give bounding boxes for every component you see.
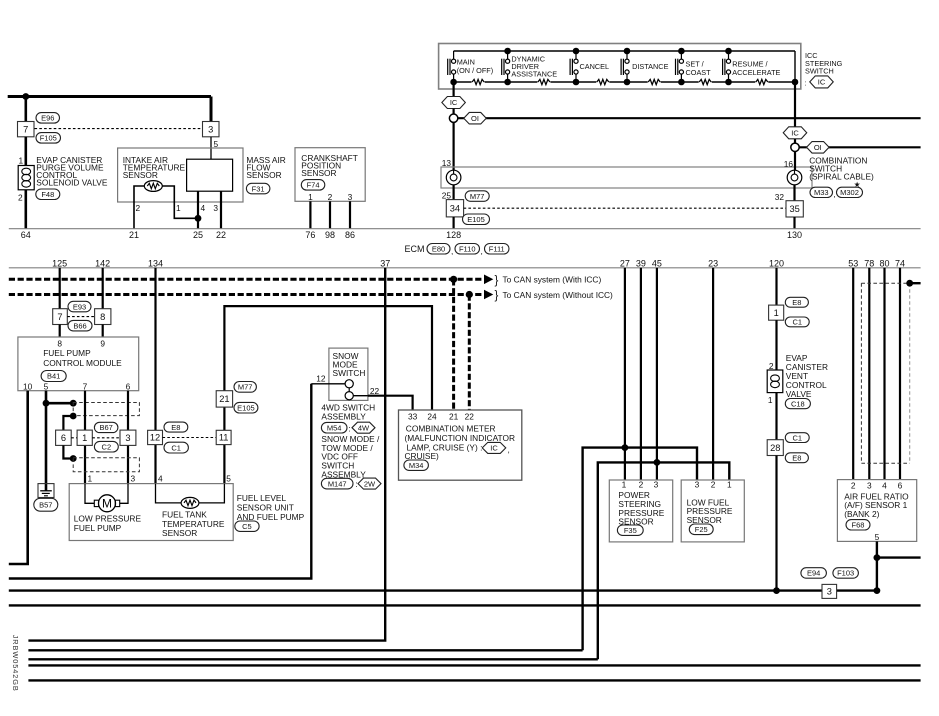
connector oval M77 b <box>234 382 256 393</box>
connector oval E93 <box>68 301 91 312</box>
connector oval F105 <box>36 133 61 144</box>
thermistor intake air temp sensor <box>144 181 162 192</box>
wire bottom rail 3 <box>28 649 582 651</box>
svg-text:5: 5 <box>226 474 231 484</box>
wire ECM 120 down to connector 1 <box>775 268 777 305</box>
svg-text:1: 1 <box>19 156 24 166</box>
connector box 3 (E94/F103) <box>822 584 837 598</box>
svg-text:22: 22 <box>216 230 226 240</box>
svg-text:10: 10 <box>23 382 33 392</box>
node AF branch junction <box>874 554 881 561</box>
connector box 7 (E96/F105) <box>18 122 35 137</box>
wire feed down to connector 3 <box>210 97 213 122</box>
svg-text:F110: F110 <box>459 244 476 253</box>
wire OI long left <box>458 117 921 119</box>
svg-text:22: 22 <box>465 411 475 421</box>
svg-text:53: 53 <box>848 258 858 268</box>
svg-text:2W: 2W <box>364 479 376 488</box>
wire bottom rail 5 <box>28 664 920 666</box>
svg-text:2: 2 <box>136 203 141 213</box>
connector oval B57 <box>34 498 58 511</box>
svg-text:12: 12 <box>150 433 160 443</box>
wire from junction down to connector 7 <box>24 97 27 122</box>
svg-text:34: 34 <box>450 203 460 213</box>
svg-text:E105: E105 <box>237 403 255 412</box>
wire ring right down to spiral 16 <box>794 151 796 170</box>
wire solenoid pin 2 down to ECM pin 64 <box>24 190 27 229</box>
connector oval M302 <box>837 187 863 197</box>
CAN bus arrow 2 <box>484 290 493 300</box>
svg-text:1: 1 <box>176 203 181 213</box>
CAN bus line 2 (without ICC) <box>9 293 485 296</box>
node shield2 corner <box>70 455 77 462</box>
CAN bus arrow 1 <box>484 275 493 285</box>
wire motor to pump pin3 <box>120 484 128 504</box>
svg-text:16: 16 <box>784 159 794 169</box>
connector oval B66 <box>68 320 92 331</box>
svg-text:SENSOR: SENSOR <box>687 515 722 525</box>
svg-text:B57: B57 <box>39 500 52 509</box>
switch contact link <box>348 388 350 392</box>
crankshaft position sensor box <box>295 148 365 202</box>
wire vent valve down to connector 28 <box>775 393 777 440</box>
wire IC hex to ring <box>453 109 455 115</box>
resistor after MAIN <box>472 79 484 84</box>
svg-text:8: 8 <box>100 312 105 322</box>
svg-text:128: 128 <box>446 230 461 240</box>
svg-text:}: } <box>495 290 499 302</box>
svg-text:DISTANCE: DISTANCE <box>632 62 668 71</box>
svg-text:3: 3 <box>125 433 130 443</box>
svg-text:B66: B66 <box>73 321 86 330</box>
svg-text:8: 8 <box>57 339 62 349</box>
svg-text:1: 1 <box>88 474 93 484</box>
dashed link 34 to 35 <box>464 207 786 209</box>
svg-text:E8: E8 <box>792 453 801 462</box>
wire ECM 45 down to PS sensor pin 3 <box>656 268 658 480</box>
connector oval C1 r1 <box>785 317 809 327</box>
wire pin5 junction down to body ground <box>45 403 48 491</box>
wire pump pin1 into box <box>85 484 94 504</box>
svg-text:98: 98 <box>325 230 335 240</box>
svg-text:E80: E80 <box>432 244 445 253</box>
connector box 35 <box>786 201 803 217</box>
svg-text:AND FUEL PUMP: AND FUEL PUMP <box>237 512 305 522</box>
svg-text:C1: C1 <box>792 433 802 442</box>
dashed shield box AF sensor <box>860 283 862 463</box>
ICC steering switch box <box>439 44 801 90</box>
svg-text:1: 1 <box>768 395 773 405</box>
connector hexagon IC left <box>442 97 466 109</box>
connector hexagon IC right <box>783 127 807 139</box>
connector oval F31 <box>246 183 270 194</box>
svg-text:M302: M302 <box>840 188 859 197</box>
connector box 7 lower (E93/B66) <box>53 309 68 325</box>
resistor after RESUME <box>756 79 768 84</box>
node AF rail junction <box>874 587 881 594</box>
wire main feed top-left horizontal <box>8 95 211 98</box>
wire ECM 27 down to PS sensor pin 1 <box>624 268 626 480</box>
wire ring down to spiral 13 <box>453 122 455 170</box>
node junction pin1/pin4 <box>195 215 202 222</box>
spiral cable symbol left <box>446 170 461 185</box>
svg-text:1: 1 <box>308 192 313 202</box>
wire MAIN tap down to IC <box>453 82 455 96</box>
wire connector 7 down to solenoid pin 1 <box>24 137 27 166</box>
svg-text:COMBINATION METER: COMBINATION METER <box>406 424 496 434</box>
wire connector 21 down through 11 to pump pin 5 <box>223 407 225 484</box>
svg-text:M54: M54 <box>327 423 342 432</box>
switch MAIN (ON/OFF) <box>447 59 449 75</box>
svg-text:5: 5 <box>44 382 49 392</box>
wire shield AF to margin <box>910 282 921 284</box>
switch DISTANCE <box>620 59 622 75</box>
svg-text:3: 3 <box>695 480 700 490</box>
wire thermistor left to pin 2 <box>134 186 144 229</box>
svg-text:M: M <box>102 497 112 511</box>
svg-text:6: 6 <box>126 382 131 392</box>
connector hexagon OI right <box>807 142 830 154</box>
motor low pressure fuel pump <box>94 500 98 506</box>
wire bottom bus ICC switch <box>454 81 472 83</box>
connector hexagon OI left <box>464 112 487 124</box>
wire connector8 to module pin 9 <box>102 325 104 338</box>
svg-text:86: 86 <box>345 230 355 240</box>
wire junction to shield corner <box>46 402 73 405</box>
ECM bottom boundary line <box>9 267 921 269</box>
connector hexagon IC label <box>810 76 834 88</box>
svg-text:F25: F25 <box>695 525 708 534</box>
wire ECM 78 down to AF pin 3 <box>868 268 870 480</box>
node top bus CANCEL <box>573 48 580 55</box>
wire thermistor to pump pin5 <box>199 484 225 503</box>
svg-text:VALVE: VALVE <box>786 389 812 399</box>
svg-text:SENSOR: SENSOR <box>301 168 336 178</box>
connector oval F68 <box>846 520 870 530</box>
svg-text:E8: E8 <box>792 298 801 307</box>
svg-text::: : <box>355 479 357 489</box>
spiral cable symbol right <box>787 170 802 185</box>
wire CAN drop to meter pin 22 <box>468 295 471 411</box>
svg-text:M33: M33 <box>814 188 829 197</box>
node bottom bus RESUME <box>725 79 732 86</box>
svg-text:SENSOR: SENSOR <box>162 528 197 538</box>
node bottom bus right end <box>792 79 799 86</box>
svg-text:4: 4 <box>158 474 163 484</box>
svg-text:4: 4 <box>201 203 206 213</box>
wire ECM 74 down to AF pin 6 <box>899 268 901 480</box>
switch SET/COAST <box>675 59 677 75</box>
wire AF branch to margin <box>877 556 921 558</box>
fuel level sensor unit box <box>69 484 233 541</box>
connector box 3 (B67/C2) <box>120 430 136 445</box>
svg-text:7: 7 <box>83 382 88 392</box>
svg-text:E8: E8 <box>171 423 180 432</box>
intake air temperature sensor outer box <box>118 148 243 202</box>
wire connector1 down to vent valve pin 2 <box>775 320 777 370</box>
svg-text:OI: OI <box>814 143 822 152</box>
svg-text:142: 142 <box>95 258 110 268</box>
svg-text:(MALFUNCTION INDICATOR: (MALFUNCTION INDICATOR <box>405 433 515 443</box>
svg-text:,: , <box>481 246 483 256</box>
svg-text:76: 76 <box>305 230 315 240</box>
svg-text:3: 3 <box>827 587 832 597</box>
svg-text:F31: F31 <box>252 184 265 193</box>
wire module pin 6 through connector 3 to pump pin 3 <box>127 391 129 484</box>
connector oval C18 <box>785 399 810 409</box>
wire branch B to LF pin 1 <box>598 462 730 659</box>
wire shield corner to connector 6 <box>63 416 73 430</box>
svg-text:1: 1 <box>82 433 87 443</box>
svg-text:78: 78 <box>864 258 874 268</box>
connector oval E8 r2 <box>785 453 808 463</box>
wire module pin 7 through connector 1 to pump pin 1 <box>84 391 86 484</box>
svg-text:25: 25 <box>193 230 203 240</box>
node shield bottom-left corner <box>70 413 77 420</box>
wire connector 6 down to corner <box>63 445 72 458</box>
svg-text:(ON / OFF): (ON / OFF) <box>457 66 493 75</box>
svg-text:23: 23 <box>708 258 718 268</box>
dashed shield box lower <box>73 458 139 472</box>
dashed link 7-8 <box>67 316 94 318</box>
svg-text:125: 125 <box>52 258 67 268</box>
wire CKP pin 1 to ECM 76 <box>309 201 311 228</box>
svg-text:MAIN: MAIN <box>457 57 475 66</box>
connector oval M34 <box>404 460 429 470</box>
svg-text:134: 134 <box>148 258 163 268</box>
connector box 1 (B67/C2) <box>77 430 92 445</box>
connector oval C1 r2 <box>785 433 809 443</box>
resistor after DISTANCE <box>648 79 660 84</box>
svg-text:C2: C2 <box>102 442 112 451</box>
wire module pin 10 down-left <box>9 391 28 564</box>
wire thermistor right to pin 1 elbow <box>162 186 197 218</box>
svg-text:IC: IC <box>791 129 799 138</box>
connector box 21 (M77/E105) <box>216 391 232 407</box>
air fuel ratio sensor box <box>837 480 916 542</box>
svg-text:2: 2 <box>711 480 716 490</box>
node bottom bus SET <box>678 79 685 86</box>
svg-text:12: 12 <box>316 373 326 383</box>
node junction 27 branch <box>622 444 629 451</box>
mass air flow sensor inner block <box>187 159 233 191</box>
svg-text:CONTROL MODULE: CONTROL MODULE <box>43 358 122 368</box>
connector box 34 (M77/E105) <box>446 200 463 217</box>
wire OI long right <box>799 146 921 148</box>
wire connector 35 down to ECM 130 <box>793 217 795 229</box>
wire connector7 to module pin 8 <box>59 325 61 338</box>
wire connector 3 to MAF box <box>210 137 212 159</box>
svg-text:F35: F35 <box>624 526 637 535</box>
svg-text:B67: B67 <box>99 423 112 432</box>
connector oval F103 <box>833 568 859 579</box>
svg-text:C1: C1 <box>792 318 802 327</box>
wire module pin 5 down to junction <box>45 391 48 404</box>
wire branch A to LF pin 3 <box>583 448 697 651</box>
svg-text:M77: M77 <box>238 383 253 392</box>
svg-text:3: 3 <box>208 124 213 134</box>
switch contact circle bottom <box>345 392 353 400</box>
wire snow pin 12 down to bottom rail <box>9 384 312 579</box>
svg-text:M77: M77 <box>470 192 485 201</box>
connector oval M54 with hexagon 4W <box>321 422 347 433</box>
svg-text:,: , <box>833 189 835 199</box>
combination switch spiral cable box <box>441 167 812 188</box>
wire CKP pin 2 to ECM 98 <box>329 201 331 228</box>
switch contact circle top <box>345 380 353 388</box>
dotted link 12-11 <box>163 437 217 439</box>
svg-text:24: 24 <box>427 411 437 421</box>
solenoid coil EVAP vent valve <box>767 370 783 393</box>
node bottom bus DISTANCE <box>624 79 631 86</box>
svg-text:3: 3 <box>867 481 872 491</box>
combination meter box <box>399 410 522 480</box>
snow mode switch box <box>329 348 368 400</box>
svg-text:IC: IC <box>490 444 498 453</box>
svg-text:,: , <box>451 246 453 256</box>
svg-text:}: } <box>495 275 499 287</box>
svg-text:SWITCH: SWITCH <box>333 368 366 378</box>
svg-text:45: 45 <box>652 258 662 268</box>
svg-text:3: 3 <box>348 192 353 202</box>
node top bus DISTANCE <box>624 48 631 55</box>
svg-text:3: 3 <box>654 480 659 490</box>
dotted link 6-1 <box>71 437 77 439</box>
svg-text:E94: E94 <box>807 569 820 578</box>
svg-text:OI: OI <box>471 114 479 123</box>
power steering pressure sensor box <box>609 480 672 542</box>
wire snow switch pin 22 stub <box>353 395 368 397</box>
connector box 28 <box>767 440 783 456</box>
svg-text:2: 2 <box>851 481 856 491</box>
svg-text:ECM: ECM <box>405 244 425 254</box>
svg-text:21: 21 <box>129 230 139 240</box>
svg-text:C1: C1 <box>171 443 181 452</box>
wire bottom rail 2 <box>9 604 921 606</box>
connector oval F74 <box>301 180 325 191</box>
connector oval M33 <box>810 187 833 197</box>
svg-text:SENSOR: SENSOR <box>246 170 281 180</box>
svg-text:(SPIRAL CABLE): (SPIRAL CABLE) <box>809 172 874 182</box>
wire pump pin4 into box <box>156 484 182 503</box>
svg-text:2: 2 <box>18 193 23 203</box>
body ground B57 symbol <box>38 484 54 498</box>
svg-text:E93: E93 <box>73 302 86 311</box>
svg-text:5: 5 <box>875 532 880 542</box>
svg-text:27: 27 <box>620 258 630 268</box>
wire meter pin 24 elbow to connector 21 <box>224 306 432 410</box>
connector box 11 (E8/C1) <box>216 430 231 444</box>
svg-text:C18: C18 <box>791 399 805 408</box>
svg-text:F103: F103 <box>837 569 854 578</box>
svg-text:E96: E96 <box>41 114 54 123</box>
svg-text:SOLENOID VALVE: SOLENOID VALVE <box>36 178 108 188</box>
wire right end top-to-bottom bus <box>794 51 796 82</box>
node junction pin5 <box>43 400 50 407</box>
wire ECM 23 down to LF sensor pin 2 <box>712 268 714 480</box>
svg-text:ASSISTANCE: ASSISTANCE <box>511 70 557 79</box>
connector hexagon IC meter <box>482 442 506 453</box>
wire connector 28 down to rail junction <box>775 456 777 591</box>
connector box 6 (B67/C2) <box>56 430 72 445</box>
svg-text:FUEL PUMP: FUEL PUMP <box>74 523 122 533</box>
wire MAF pin 4 down <box>197 191 199 229</box>
connector box 8 lower <box>95 309 111 325</box>
svg-text:F48: F48 <box>41 190 54 199</box>
ECM top boundary line <box>9 228 921 230</box>
svg-text:7: 7 <box>57 312 62 322</box>
svg-text:25: 25 <box>442 191 452 201</box>
svg-text:F68: F68 <box>852 521 865 530</box>
wire ECM 53 down to AF pin 2 <box>852 268 854 480</box>
svg-text:4: 4 <box>882 481 887 491</box>
svg-text:21: 21 <box>449 411 459 421</box>
wire bottom rail 1 <box>9 589 877 591</box>
svg-text:COAST: COAST <box>686 68 712 77</box>
switch RESUME/ACCELERATE <box>722 59 724 75</box>
wire spiral right down to connector 35 <box>793 185 795 201</box>
svg-text:35: 35 <box>789 204 799 214</box>
connector oval F35 <box>617 525 643 535</box>
wire AF pin 5 down <box>876 541 878 590</box>
wire ECM 80 down to AF pin 4 <box>883 268 885 480</box>
switch DYNAMIC DRIVER ASSISTANCE <box>501 59 503 75</box>
switch CANCEL <box>569 59 571 75</box>
svg-text:39: 39 <box>636 258 646 268</box>
svg-text:9: 9 <box>100 339 105 349</box>
connector oval M147 with hexagon 2W <box>321 478 353 489</box>
node bottom bus DYNAMIC <box>504 79 511 86</box>
connector oval E8 a <box>164 422 188 432</box>
svg-text:M34: M34 <box>409 461 424 470</box>
svg-text:28: 28 <box>770 443 780 453</box>
resistor after CANCEL <box>597 79 609 84</box>
svg-text:3: 3 <box>213 203 218 213</box>
svg-text:1: 1 <box>727 480 732 490</box>
svg-text:80: 80 <box>879 258 889 268</box>
solenoid coil EVAP purge valve F48 <box>18 166 34 190</box>
svg-text::: : <box>348 423 350 433</box>
wire snow pin 22 to meter pin 33 <box>368 396 413 410</box>
connector oval C2 <box>94 441 118 452</box>
svg-text:(BANK 2): (BANK 2) <box>844 509 879 519</box>
svg-text:FUEL PUMP: FUEL PUMP <box>43 348 91 358</box>
node junction top-left <box>22 93 29 100</box>
wire connector 34 down to ECM 128 <box>453 217 455 229</box>
svg-text:6: 6 <box>61 433 66 443</box>
svg-text:1: 1 <box>622 480 627 490</box>
connector ring right <box>791 143 799 151</box>
thermistor fuel tank temperature sensor <box>181 497 199 508</box>
wire ICC right exit down <box>794 82 796 127</box>
svg-text:4W: 4W <box>358 423 370 432</box>
node shield AF junction <box>906 280 913 287</box>
node shield top-left corner <box>70 400 77 407</box>
svg-text:IC: IC <box>818 78 826 87</box>
connector oval M77 top <box>465 191 489 202</box>
wire snow switch pin 12 stub <box>311 383 345 385</box>
svg-text::: : <box>805 78 807 87</box>
svg-text:74: 74 <box>895 258 905 268</box>
connector oval C1 a <box>164 442 188 453</box>
svg-text:2: 2 <box>328 192 333 202</box>
wire ECM 134 down through connector 12 to pump pin 4 <box>154 268 156 484</box>
svg-text:CRUISE): CRUISE) <box>405 451 440 461</box>
dashed link connector 7 to 3 <box>35 128 201 130</box>
connector box 12 (E8/C1) <box>148 430 163 444</box>
svg-text:F105: F105 <box>40 134 57 143</box>
connector oval B41 <box>41 371 66 382</box>
